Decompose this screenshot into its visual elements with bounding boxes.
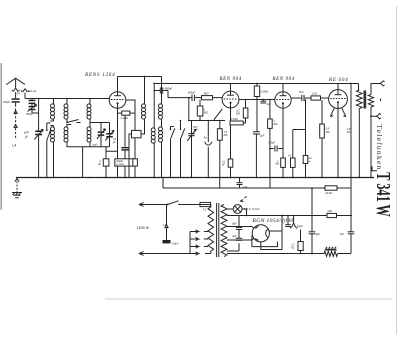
output transformer core <box>364 91 367 109</box>
svg-text:kΩ: kΩ <box>291 247 294 249</box>
svg-text:350pF: 350pF <box>26 113 33 116</box>
switch contact b <box>181 121 185 178</box>
rectifier tube RGN <box>252 225 269 242</box>
svg-text:fest opt.: fest opt. <box>28 90 37 93</box>
screen resistor 0,2M-ohm <box>245 100 247 109</box>
svg-text:0,1MΩ: 0,1MΩ <box>261 90 269 94</box>
svg-text:0,1MΩ: 0,1MΩ <box>231 119 238 121</box>
coil tap switch <box>67 119 81 127</box>
electrolytic 6uF <box>311 188 313 232</box>
svg-text:100pF: 100pF <box>116 160 123 163</box>
antenna <box>6 78 25 88</box>
bandfilter coil secondary long <box>161 77 163 105</box>
svg-text:150pF: 150pF <box>3 101 10 104</box>
svg-text:6μF: 6μF <box>315 232 320 236</box>
cathode wire V3 <box>282 108 284 158</box>
output transformer primary <box>358 84 360 91</box>
wire trimmer bus lower <box>90 142 110 147</box>
speaker terminal lower <box>370 115 372 117</box>
svg-text:0,5μF: 0,5μF <box>172 242 179 245</box>
trimmer 4/30pF right <box>106 133 113 135</box>
wave switch V2 <box>214 109 222 121</box>
svg-text:6μF: 6μF <box>232 222 237 226</box>
decoupling capacitor 2uF <box>239 178 241 183</box>
page fold shadow <box>105 298 392 300</box>
bandfilter coil primary <box>142 104 146 108</box>
grid stopper 1k-ohm <box>311 96 321 100</box>
secondary taps <box>227 209 352 251</box>
heater arrows <box>240 197 247 202</box>
svg-text:13/60 W: 13/60 W <box>137 226 150 230</box>
svg-text:8/45: 8/45 <box>193 126 198 129</box>
svg-text:LA: LA <box>12 144 16 148</box>
wire drop b <box>269 178 271 189</box>
HT feed vertical <box>350 84 352 189</box>
cathode resistor V3 <box>281 158 286 167</box>
speaker lead upper <box>371 84 380 95</box>
bandfilter capacitor 450pF <box>153 90 155 92</box>
grid leak 0,8M-ohm V4 <box>321 100 323 124</box>
trimmer 4/30pF left <box>98 131 105 133</box>
cathode wire V2 <box>230 108 232 121</box>
svg-text:0,5μF: 0,5μF <box>269 142 276 145</box>
tube V3 REN904 <box>275 92 291 108</box>
svg-text:RGN 1054/2000: RGN 1054/2000 <box>251 218 293 224</box>
mains transformer secondary <box>221 205 227 257</box>
mains lead upper <box>139 203 160 207</box>
wire bias line <box>189 120 225 122</box>
grid resistor 5k-ohm <box>202 96 213 100</box>
primary taps <box>204 232 208 247</box>
ground bus <box>16 177 374 179</box>
tube V4 RE604 <box>329 90 348 109</box>
wire tuning branch <box>38 99 40 131</box>
padding capacitor 350pF with arrow <box>29 106 36 108</box>
left margin mark <box>0 63 2 210</box>
svg-text:5a: 5a <box>204 136 207 140</box>
svg-text:kΩ: kΩ <box>347 131 350 134</box>
RF transformer coil upper <box>89 99 91 105</box>
anode bypass 2uF <box>262 100 264 101</box>
svg-text:MΩ: MΩ <box>224 134 228 137</box>
svg-text:150pF: 150pF <box>188 91 196 95</box>
wire AF line to V2 <box>168 97 222 99</box>
svg-text:T 341 W: T 341 W <box>372 172 394 217</box>
page edge line <box>396 6 398 334</box>
blocking capacitor 4uF <box>105 147 107 159</box>
coupling capacitor 150pF <box>191 95 193 101</box>
svg-text:REN 904: REN 904 <box>272 77 295 82</box>
anode load resistor <box>133 159 138 166</box>
buffer capacitor 2uF <box>236 237 243 239</box>
svg-text:REN 904: REN 904 <box>219 77 242 82</box>
rectifier anode leads <box>252 227 254 241</box>
svg-text:RENS 1264: RENS 1264 <box>84 71 115 78</box>
grid cap lead V1 <box>117 77 119 92</box>
grid cap lead V3 <box>282 84 284 92</box>
wire AGC line <box>293 129 306 131</box>
tube V2 REN904 <box>222 91 239 108</box>
svg-text:MΩ: MΩ <box>276 164 280 166</box>
coupling capacitor 5nF <box>301 95 303 101</box>
svg-text:MΩ: MΩ <box>236 113 240 116</box>
svg-text:T.S.: T.S. <box>203 209 208 212</box>
svg-text:μF: μF <box>221 164 225 167</box>
secondary coil lower <box>64 127 68 131</box>
heater line resistor 1k-ohm <box>327 213 337 217</box>
voltage selector <box>189 232 191 254</box>
coupling box 1M-ohm <box>132 130 142 137</box>
ground symbol <box>16 178 18 192</box>
fuse <box>200 202 211 206</box>
svg-text:7μF: 7μF <box>339 232 344 236</box>
cathode resistor box 0,1M-ohm <box>230 121 243 125</box>
wire bandfilter link <box>141 119 145 134</box>
svg-text:Fe(l): Fe(l) <box>297 224 302 228</box>
AVC resistor 1,5M-ohm <box>219 121 221 129</box>
boxed component 100pF 0,1M-ohm <box>115 159 133 166</box>
antenna socket fest opt <box>21 89 29 99</box>
svg-text:2μF: 2μF <box>259 134 265 138</box>
svg-text:20 kΩ: 20 kΩ <box>324 191 332 195</box>
anode wire V1 <box>126 100 135 159</box>
svg-text:1kΩ: 1kΩ <box>327 209 332 213</box>
svg-text:2μF: 2μF <box>242 185 248 189</box>
svg-text:MΩ: MΩ <box>274 123 278 126</box>
grid resistor 1M-ohm V3 <box>269 100 271 120</box>
hum capacitor <box>287 216 289 225</box>
mains transformer primary <box>200 205 211 208</box>
tuning capacitor 450pF <box>35 131 42 133</box>
waveband switch arm <box>47 123 51 178</box>
svg-text:4,5 V; 0,9 A: 4,5 V; 0,9 A <box>244 207 260 211</box>
wire bandfilter primary drop <box>144 77 146 105</box>
dial lamp <box>233 205 242 214</box>
grid leak 1M-ohm <box>199 100 201 106</box>
svg-text:Telefunken: Telefunken <box>375 124 384 169</box>
coupling capacitor 0,5uF <box>269 148 271 150</box>
svg-text:μF: μF <box>97 163 101 166</box>
cathode wire V1 <box>117 108 119 177</box>
screen bypass capacitor 0,1uF <box>124 115 126 147</box>
antenna socket b <box>12 88 20 98</box>
svg-text:μF: μF <box>112 141 116 144</box>
wire secondary return <box>370 107 372 178</box>
svg-text:MΩ: MΩ <box>204 112 208 115</box>
svg-text:(b): (b) <box>17 92 20 95</box>
svg-text:(0,1MΩ): (0,1MΩ) <box>116 164 124 166</box>
bias resistor 50k-ohm V1 <box>118 112 122 114</box>
rectifier cathode lead <box>269 230 282 232</box>
filament legs V4 <box>331 108 344 115</box>
svg-text:2μF: 2μF <box>231 234 237 238</box>
tube V1 RENS1264 <box>109 92 126 109</box>
series trimmer capacitor <box>29 100 36 102</box>
antenna coil upper <box>53 99 55 105</box>
wire primary return <box>358 109 360 178</box>
mains transformer core <box>216 203 218 257</box>
wire coil return bus <box>67 142 90 178</box>
screen feed resistor 0,1M-ohm <box>256 84 258 87</box>
AGC resistor 0,5M-ohm <box>292 130 294 159</box>
wire grid bus to bandfilter <box>118 76 162 78</box>
barretter <box>324 251 338 256</box>
electrolytic 7uF <box>350 188 352 232</box>
mains switch <box>160 201 200 205</box>
svg-text:RE 604: RE 604 <box>328 78 348 83</box>
wire bottom return <box>227 253 351 255</box>
grid cap lead V2 <box>230 84 232 92</box>
flexible earth lead <box>15 105 17 140</box>
svg-text:0,1MΩ: 0,1MΩ <box>121 117 128 120</box>
wire padder to tuning branch <box>32 110 39 113</box>
wire trimmer bus upper <box>90 119 110 123</box>
mains lead lower <box>139 252 190 256</box>
cathode wire V4 <box>337 108 339 177</box>
speaker terminal upper <box>380 81 385 86</box>
svg-text:5nF: 5nF <box>299 90 304 94</box>
svg-text:5kΩ: 5kΩ <box>204 91 209 95</box>
svg-text:MΩ: MΩ <box>326 131 330 134</box>
resistor 20k-ohm <box>325 186 337 190</box>
buffer capacitor 6uF <box>238 216 240 228</box>
svg-text:1kΩ: 1kΩ <box>312 91 317 95</box>
secondary coil upper <box>66 99 68 105</box>
wire anode V3 to V4 <box>291 97 328 99</box>
antenna coil lower <box>50 121 53 127</box>
pickup loop <box>205 121 213 178</box>
wire drop a <box>219 178 221 189</box>
wire drop left <box>162 178 164 189</box>
wire HT bus <box>154 83 358 85</box>
svg-text:450pF: 450pF <box>165 86 173 90</box>
cathode bias resistor lower <box>228 159 233 167</box>
wire antenna line <box>25 98 109 100</box>
screen capacitor 2uF <box>256 97 258 132</box>
tick mark <box>380 99 382 102</box>
antenna capacitor <box>12 98 20 100</box>
rectifier output loop <box>261 216 282 250</box>
svg-text:pF: pF <box>194 130 198 132</box>
bandfilter coil tertiary <box>153 84 155 129</box>
logo bracket <box>372 166 377 171</box>
wire anode V2 to grid V3 <box>239 99 275 101</box>
field coil jack Fe <box>290 223 298 229</box>
RF transformer coil lower <box>89 119 91 127</box>
bias resistor 1,2k-ohm <box>300 230 302 242</box>
wire HT line2 <box>163 187 351 189</box>
switch contact a <box>171 127 175 178</box>
field coil feed <box>293 216 295 223</box>
grid capacitor 400pF <box>305 100 307 156</box>
grid cap lead V4 <box>337 84 339 90</box>
output transformer secondary <box>368 95 373 108</box>
padding trimmer 8/45pF <box>191 121 193 134</box>
